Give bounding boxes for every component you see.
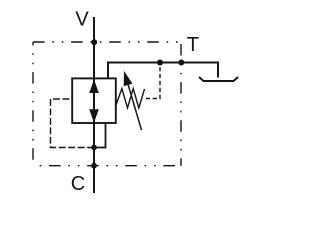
arrow down inside valve: [89, 109, 99, 123]
wire valve top to tank (T branch): [108, 63, 218, 79]
wire V to C (main vertical line): [93, 17, 95, 193]
spring: [116, 89, 145, 109]
junction dot drain/pilot node: [91, 145, 97, 151]
junction dot at V port on border: [91, 39, 97, 45]
svg-text:C: C: [71, 173, 85, 195]
pilot line left (dashed): [51, 99, 95, 148]
enclosure border top (dash-dot-dot): [33, 41, 181, 43]
enclosure border left: [32, 42, 34, 166]
junction dot pilot tap on T line: [157, 60, 163, 66]
enclosure border bottom: [33, 165, 181, 167]
valve stem wire inside body: [93, 78, 95, 123]
junction dot C port on border: [91, 163, 97, 169]
enclosure border right: [180, 42, 182, 166]
valve body square: [72, 78, 116, 123]
svg-text:V: V: [75, 8, 89, 30]
adjustment arrow head: [124, 71, 133, 86]
arrow up inside valve: [89, 80, 99, 94]
adjustment arrow shaft: [126, 79, 141, 131]
pilot line right to spring (dashed): [143, 63, 160, 99]
tank symbol: [199, 77, 238, 81]
junction dot T port on border: [178, 60, 184, 66]
svg-text:T: T: [187, 34, 199, 56]
wire drain L below valve: [94, 123, 106, 148]
